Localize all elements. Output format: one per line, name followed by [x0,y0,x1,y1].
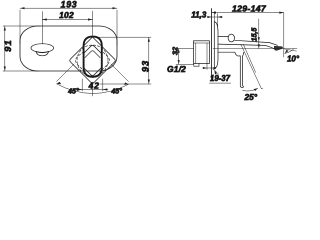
svg-text:45°: 45° [110,87,122,95]
dim 129-147 line [212,12,284,14]
svg-text:93: 93 [141,60,151,72]
dim 91 extensions [3,26,40,71]
cartridge cap ellipse [228,34,234,42]
10 degree arc [285,49,294,54]
svg-text:102: 102 [59,10,74,20]
19-37 leader arrow [214,70,218,75]
body collar bottom [218,52,244,56]
svg-text:19-37: 19-37 [210,74,231,83]
spout top hump [218,35,228,37]
25 degree swing arc [243,88,258,91]
wall line [211,9,213,81]
dim 32 extensions [176,49,194,65]
svg-text:15,5: 15,5 [251,28,258,42]
dim 19-37 ticks [205,64,215,70]
inner chevron second line [85,51,100,58]
dim 42 line [77,89,108,91]
svg-text:11,3: 11,3 [191,11,207,20]
escutcheon diamond (rotated square) [70,37,116,83]
dim 193 line [20,7,117,9]
45 degree arc [57,84,129,94]
lever swung ghost line 1 [241,44,263,89]
inlet stub G1/2 [194,64,199,67]
dim 91 line [4,26,6,71]
19-37 underline [209,82,231,84]
svg-text:G1/2: G1/2 [167,64,186,74]
45 degree reference left [57,64,75,82]
handle knob ellipse [31,44,54,53]
svg-text:91: 91 [2,39,13,52]
dim 11,3 extension [214,12,217,31]
flange outline [213,22,218,70]
dim 129-147 extension right [283,13,285,57]
spout tip underline [268,46,275,49]
dim 11,3 line [210,16,223,18]
svg-text:25°: 25° [243,92,257,101]
inner square solid chevrons seen through slot [84,46,102,54]
dim 93 extensions [96,37,151,84]
handle centerline (102 extension) [41,12,43,44]
45 degree reference right [111,64,129,82]
svg-text:10°: 10° [287,54,300,63]
body inner line 1 [195,43,197,64]
spout axis line [213,48,297,50]
body inner line 2 [206,43,208,64]
spout slot (bold stadium) [84,37,102,77]
10 degree tilt line [284,49,297,51]
spout tip beak [274,46,283,51]
handle knob base line [36,52,49,53]
wall plate outline [20,26,117,71]
body top inner line [194,42,210,44]
lever blade vertical [240,56,242,86]
dim 32 line [178,49,180,65]
dim 93 line [148,37,150,84]
dim 102 line [42,19,92,21]
spout underside [218,44,268,46]
hidden flange dashed circle [77,45,108,76]
dim 42 extensions [82,79,103,91]
lever blade foot [240,85,243,87]
handle knob lower lip [36,52,49,56]
dim 102 extension right [92,11,94,36]
spout top edge [235,40,278,45]
svg-text:32: 32 [171,46,180,55]
hidden body dashed rounded square [76,44,110,78]
in-wall body [194,41,210,64]
flange back edge [213,22,215,70]
svg-text:129-147: 129-147 [232,4,267,14]
diamond bottom corner extension [92,85,94,96]
dim 15,5 line [258,19,260,49]
dim 193 extensions [20,10,117,45]
svg-text:42: 42 [88,80,100,90]
svg-text:193: 193 [61,0,78,10]
svg-text:45°: 45° [67,87,79,95]
lever swung ghost line 2 [243,44,255,72]
